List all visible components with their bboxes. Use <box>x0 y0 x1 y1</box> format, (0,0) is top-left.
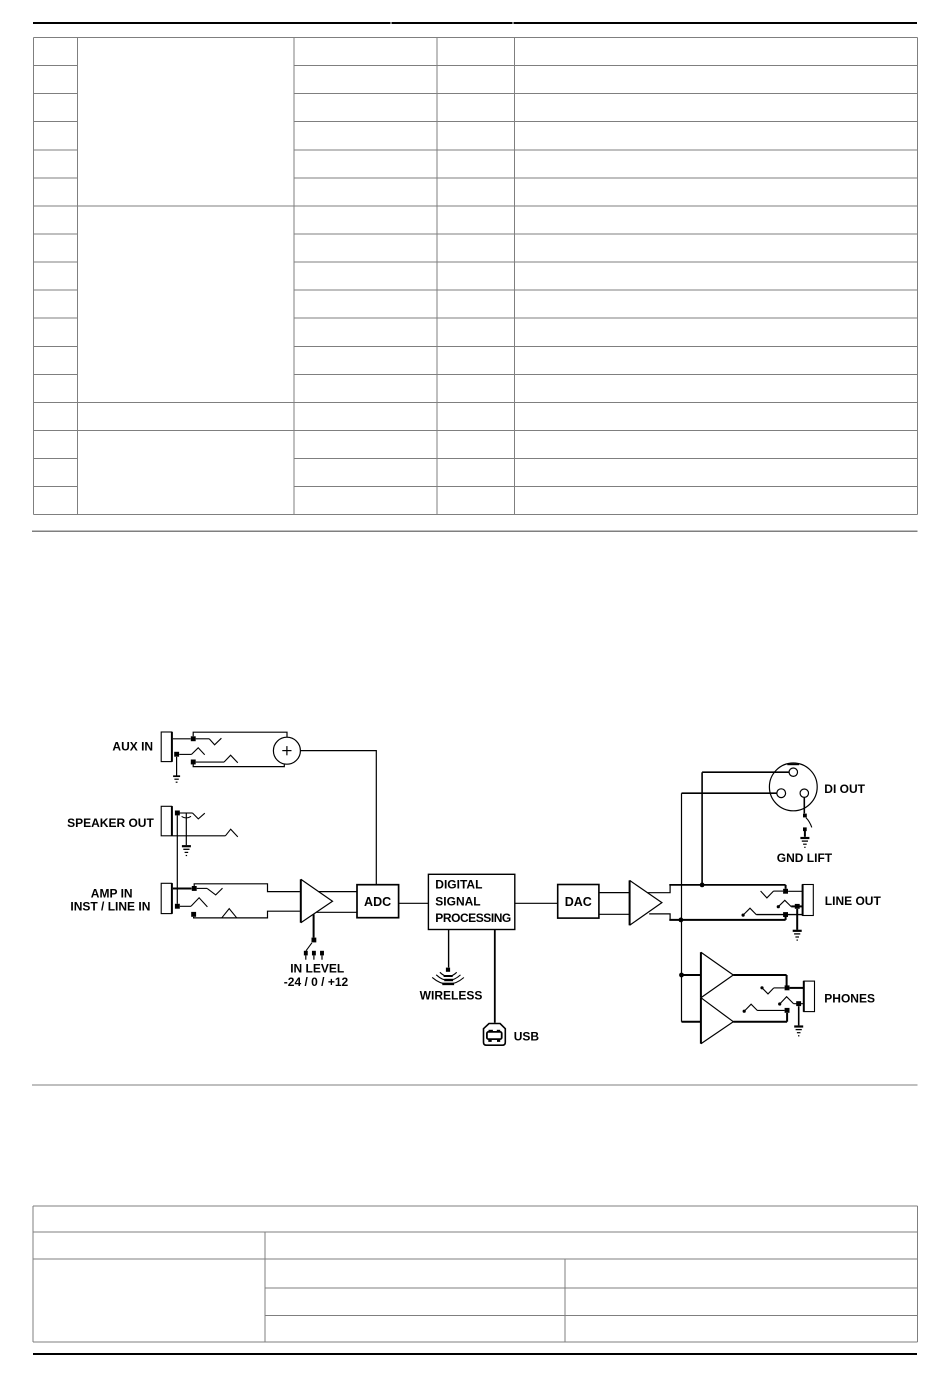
svg-text:DIGITAL: DIGITAL <box>435 878 482 892</box>
svg-text:IN LEVEL: IN LEVEL <box>290 961 344 975</box>
svg-text:PROCESSING: PROCESSING <box>435 911 511 925</box>
svg-text:AUX IN: AUX IN <box>112 740 153 754</box>
svg-text:SPEAKER OUT: SPEAKER OUT <box>67 816 154 830</box>
svg-text:INST / LINE IN: INST / LINE IN <box>70 900 150 914</box>
svg-text:DI OUT: DI OUT <box>824 782 865 796</box>
svg-text:-24 / 0 / +12: -24 / 0 / +12 <box>284 975 349 989</box>
svg-text:SIGNAL: SIGNAL <box>435 894 480 908</box>
svg-text:AMP IN: AMP IN <box>91 886 133 900</box>
svg-text:DAC: DAC <box>565 895 592 909</box>
svg-text:LINE OUT: LINE OUT <box>825 894 882 908</box>
svg-text:WIRELESS: WIRELESS <box>420 989 483 1003</box>
svg-text:USB: USB <box>514 1030 540 1044</box>
svg-text:ADC: ADC <box>364 895 391 909</box>
svg-text:GND LIFT: GND LIFT <box>777 851 833 865</box>
svg-text:PHONES: PHONES <box>824 991 875 1005</box>
